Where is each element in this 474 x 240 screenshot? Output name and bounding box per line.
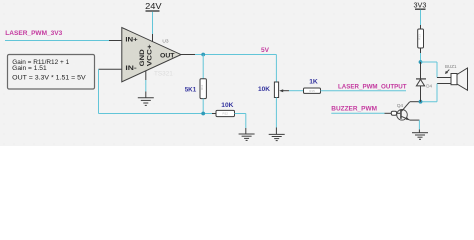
wire R15 to LASER_PWM_OUTPUT stub xyxy=(321,90,407,92)
svg-text:5K1: 5K1 xyxy=(185,87,197,94)
wire 5V node down to potentiometer xyxy=(275,55,277,83)
pin IN- of U3 xyxy=(99,68,123,70)
svg-text:LASER_PWM_OUTPUT: LASER_PWM_OUTPUT xyxy=(338,83,407,90)
wire LASER_PWM_3V3 to IN+ xyxy=(5,40,109,42)
power label 24V xyxy=(145,2,162,11)
svg-text:U3: U3 xyxy=(162,39,168,45)
svg-text:TS321: TS321 xyxy=(154,71,173,78)
svg-text:BUZZER_PWM: BUZZER_PWM xyxy=(331,106,377,113)
wire OUT junction down to R11 xyxy=(202,55,204,80)
op-amp U3 xyxy=(122,28,181,82)
wire OUT to 5V node xyxy=(195,54,276,56)
ground symbol below Q4 xyxy=(412,133,428,140)
net LASER_PWM_3V3 label xyxy=(5,30,62,37)
svg-text:LASER_PWM_3V3: LASER_PWM_3V3 xyxy=(5,30,62,37)
svg-text:10K: 10K xyxy=(221,102,233,109)
net label BUZZER_PWM xyxy=(331,106,377,113)
wire base resistor to Q4 base xyxy=(397,112,401,114)
designator U3 xyxy=(162,39,168,45)
svg-text:IN-: IN- xyxy=(125,65,136,72)
svg-text:10K: 10K xyxy=(258,86,270,93)
value label 10K (R12) xyxy=(221,102,233,109)
svg-text:R12: R12 xyxy=(222,112,228,116)
transistor Q4 xyxy=(397,102,410,120)
designator BUZ1 xyxy=(445,64,457,69)
svg-text:1K: 1K xyxy=(309,79,318,86)
power bar symbol 3V3 xyxy=(415,8,426,10)
potentiometer wiper arrow xyxy=(279,89,289,92)
wire pot bottom to ground xyxy=(275,98,277,135)
wire R12 to ground xyxy=(235,114,246,135)
wire collector to node xyxy=(410,101,421,103)
junction node at 3V3 branch xyxy=(419,60,423,64)
diode D4 (flyback) xyxy=(416,62,426,86)
power label 3V3 xyxy=(414,3,427,10)
ground symbol below R12 xyxy=(239,134,255,140)
wire wiper to R15 xyxy=(289,90,304,92)
wire 24V to VCC pin xyxy=(152,12,154,34)
wire buzzer bottom to collector node xyxy=(421,84,438,102)
junction collector node xyxy=(419,100,423,104)
junction feedback node xyxy=(201,112,205,116)
value label 1K xyxy=(309,79,318,86)
buzzer BUZ1 symbol xyxy=(451,68,468,90)
svg-text:BUZ1: BUZ1 xyxy=(445,64,457,69)
svg-text:Q4: Q4 xyxy=(397,103,404,109)
wire 3V3 to resistor xyxy=(420,10,422,29)
resistor R12 body xyxy=(216,110,235,116)
svg-text:5V: 5V xyxy=(261,47,269,54)
resistor R11 body xyxy=(200,79,206,99)
pin IN+ of U3 xyxy=(109,40,122,42)
svg-text:R11: R11 xyxy=(200,84,204,90)
ground symbol below potentiometer xyxy=(269,134,285,140)
pin GND of U3 xyxy=(145,71,147,80)
resistor R15 body (1K) xyxy=(304,88,321,93)
polarity arrow at BUZ1 xyxy=(445,70,449,74)
svg-text:3V3: 3V3 xyxy=(414,3,427,10)
wire BUZZER_PWM to base resistor xyxy=(331,112,391,114)
value label 5K1 xyxy=(185,87,197,94)
pin buzzer bottom xyxy=(437,83,451,85)
pin buzzer top xyxy=(437,77,451,79)
svg-text:GND: GND xyxy=(139,49,146,66)
svg-text:OUT = 3.3V * 1.51 = 5V: OUT = 3.3V * 1.51 = 5V xyxy=(12,75,86,82)
pin VCC+ of U3 xyxy=(152,34,154,42)
wire node to buzzer top xyxy=(421,62,438,78)
wire R13 to node xyxy=(420,48,422,62)
net label 5V xyxy=(261,47,269,54)
base resistor body xyxy=(391,111,396,115)
net label LASER_PWM_OUTPUT xyxy=(338,83,407,90)
wire R11 bottom to feedback node xyxy=(202,99,204,114)
value label 10K (pot) xyxy=(258,86,270,93)
potentiometer RP body xyxy=(274,82,278,98)
svg-text:OUT: OUT xyxy=(160,52,175,59)
svg-text:IN+: IN+ xyxy=(125,36,138,43)
wire feedback vertical from IN- xyxy=(98,69,100,113)
wire diode anode to collector node xyxy=(420,86,422,102)
wire emitter to ground xyxy=(410,120,420,133)
note box gain calculation xyxy=(8,55,95,90)
pin OUT of U3 xyxy=(181,54,195,56)
svg-text:24V: 24V xyxy=(145,2,162,11)
designator Q4 xyxy=(397,103,404,109)
ground symbol under op-amp xyxy=(138,98,154,106)
svg-text:R15: R15 xyxy=(309,89,315,93)
svg-text:VCC+: VCC+ xyxy=(147,44,154,66)
svg-text:R13: R13 xyxy=(418,34,422,40)
junction at OUT / R11 xyxy=(201,53,205,57)
designator D4 xyxy=(426,83,432,88)
watermark part name TS321 xyxy=(154,71,173,78)
wire feedback bottom horizontal xyxy=(99,113,217,115)
wire GND pin to ground xyxy=(145,80,147,98)
resistor R13 (3V3 branch) xyxy=(418,29,424,48)
power bar symbol 24V xyxy=(146,10,160,12)
svg-text:D4: D4 xyxy=(426,83,432,88)
svg-text:Gain = 1.51: Gain = 1.51 xyxy=(12,65,47,72)
